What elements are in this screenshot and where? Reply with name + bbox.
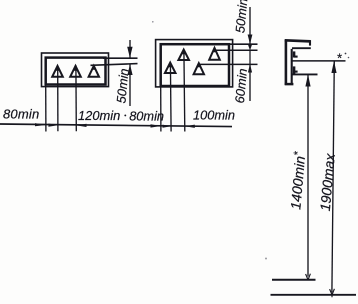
box B1 top edge extension wire bbox=[103, 57, 138, 59]
profile hook H1 foot bbox=[294, 56, 298, 58]
wall profile flange end cap bbox=[309, 40, 311, 45]
dimension 50min box1 upper arrowhead bbox=[127, 47, 132, 58]
dimension 1400min up arrowhead bbox=[305, 74, 310, 86]
floor level short wire bbox=[272, 279, 316, 281]
box B2 top edge extension wire bbox=[229, 43, 258, 45]
dimension 60min middle line bbox=[249, 51, 251, 65]
svg-text:1400min*: 1400min* bbox=[287, 150, 308, 210]
svg-text:50min: 50min bbox=[113, 68, 131, 104]
box B1 inner thick rectangle bbox=[46, 58, 106, 85]
wall profile flange bottom stroke bbox=[292, 47, 311, 49]
baseline arrowhead at box1 edge bbox=[35, 123, 46, 126]
socket symbol A1 triangle bbox=[52, 66, 63, 77]
dimension 1400min down arrowhead bbox=[306, 274, 311, 280]
dimension 50min box2 middle down arrowhead bbox=[248, 45, 252, 51]
profile hook H2 foot bbox=[294, 71, 298, 73]
profile hook H2 vertical bbox=[293, 66, 296, 73]
speckle dot bbox=[265, 258, 267, 260]
socket symbol A3 triangle bbox=[89, 66, 99, 77]
lower level wire 1400 bbox=[292, 73, 317, 75]
svg-text:50min: 50min bbox=[232, 0, 250, 34]
speckle dot near box2 top bbox=[152, 21, 154, 23]
wall profile vertical bar left stroke bbox=[285, 40, 288, 85]
dimension 50min box1 lower arrowhead bbox=[127, 64, 132, 75]
socket symbol A2 axis wire bbox=[75, 65, 77, 131]
box B1 outer thin rectangle bbox=[42, 53, 109, 87]
profile hook H1 vertical bbox=[293, 51, 296, 57]
svg-text:100min: 100min bbox=[193, 108, 235, 123]
baseline arrowhead at box2 edge bbox=[151, 124, 161, 127]
wall profile bar right stroke bbox=[291, 49, 293, 83]
dimension 1400min vertical line bbox=[307, 74, 309, 276]
floor level long wire bbox=[271, 294, 357, 296]
baseline arrowhead at A2 axis bbox=[76, 124, 86, 127]
baseline dimension wire bbox=[0, 124, 232, 127]
box B2 inner thick rectangle bbox=[161, 44, 229, 86]
socket symbol C4 triangle bbox=[194, 63, 204, 74]
box B1 left edge extension wire bbox=[45, 85, 47, 132]
dimension 50min box1 lower line bbox=[129, 64, 131, 106]
dimension 1900max up arrowhead bbox=[331, 61, 336, 73]
baseline arrowhead at A1 axis bbox=[48, 124, 58, 127]
dimension 60min lower line bbox=[249, 64, 251, 101]
svg-text:120min: 120min bbox=[78, 108, 120, 123]
socket symbol C2 axis wire bbox=[169, 63, 172, 132]
leader wire from A3 apex bbox=[91, 64, 138, 66]
dimension 50min box2 upper line bbox=[249, 7, 251, 44]
svg-text:*: * bbox=[337, 51, 343, 66]
svg-text:1900max: 1900max bbox=[317, 152, 338, 212]
dimension 60min up arrowhead bbox=[248, 64, 252, 73]
socket symbol C1 axis wire bbox=[183, 50, 186, 132]
baseline arrowhead at C1 axis bbox=[185, 125, 195, 128]
leader wire from C3 apex bbox=[215, 49, 258, 51]
socket symbol C2 triangle bbox=[165, 63, 176, 73]
leader wire from C4 apex bbox=[199, 63, 257, 65]
dimension 1900max vertical line bbox=[332, 61, 334, 293]
svg-text:60min: 60min bbox=[232, 68, 250, 104]
box B2 outer thin rectangle bbox=[156, 40, 233, 87]
socket symbol A1 axis wire bbox=[57, 66, 59, 131]
box B2 left edge extension wire bbox=[160, 86, 162, 132]
socket symbol C1 triangle bbox=[178, 50, 189, 60]
socket symbol C3 triangle bbox=[209, 48, 220, 60]
baseline arrowhead at C2 axis bbox=[163, 125, 172, 128]
svg-text:80min: 80min bbox=[129, 109, 164, 124]
upper level wire 1900 bbox=[292, 60, 345, 62]
socket symbol A2 triangle bbox=[70, 66, 81, 77]
wall profile bar bottom cap bbox=[285, 83, 294, 86]
dimension 1900max down arrowhead bbox=[330, 289, 335, 298]
wall profile flange top stroke bbox=[285, 40, 311, 41]
svg-text:80min: 80min bbox=[3, 107, 39, 122]
dimension 50min box1 upper line bbox=[129, 40, 131, 58]
dimension 50min box2 arrowhead at top line bbox=[248, 35, 253, 45]
